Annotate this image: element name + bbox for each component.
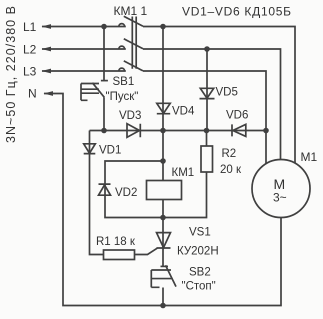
node L1-VD4 [160,24,166,30]
arrow N [44,91,54,96]
contactor KM1.1 fixed contact hump row1 [119,24,125,27]
node VD5-R2-VD6 [204,128,210,134]
svg-text:SB1: SB1 [113,76,135,88]
wire main vertical A bottom [162,288,164,306]
wire L3 left segment [42,70,126,72]
node L1-SB1 [101,24,107,30]
pushbutton SB1 actuator rod [81,89,99,93]
node VD3-VD4 [160,128,166,134]
wire R1 right lead and VS1 gate [135,248,158,254]
pushbutton SB2 actuator rod [151,278,172,280]
svg-text:"Пуск": "Пуск" [106,91,139,103]
diode VD4 [157,103,170,113]
wire L2 left segment [42,48,126,50]
svg-text:VS1: VS1 [189,227,211,239]
thyristor VS1 [157,233,171,248]
wire L1 right segment to motor [143,27,295,164]
pushbutton SB2 actuator [151,270,171,287]
wire L3 right segment [143,71,266,165]
contactor KM1.1 linkage bar [132,17,136,69]
svg-text:L3: L3 [23,65,37,79]
wire main vertical A upper [162,27,164,181]
svg-text:КМ1 1: КМ1 1 [114,4,148,18]
node coil bottom [160,215,166,221]
svg-text:"Стоп": "Стоп" [182,281,216,293]
pushbutton SB1 blade [92,83,104,98]
svg-text:КМ1: КМ1 [172,167,195,179]
svg-text:R1 18 к: R1 18 к [96,236,136,248]
contactor KM1.1 fixed contact hump row2 [119,46,125,49]
diode VD6 [232,124,246,136]
relay coil KM1 [147,181,182,200]
wire N rail to bottom rail to motor bottom [44,94,281,306]
wire L1 left segment [42,26,126,28]
wire VD5 branch [206,49,208,131]
wire SB1 branch upper [103,27,105,81]
wire R2 top lead [206,131,208,147]
diode VD1 [84,144,96,154]
svg-text:L2: L2 [23,43,37,57]
diode VD3 [127,124,140,138]
svg-text:VD3: VD3 [119,110,141,122]
diode VD2 [99,184,111,195]
svg-text:VD1: VD1 [99,145,121,157]
wire L2 right segment to motor [143,49,281,160]
wire VD2 loop [105,161,163,218]
pushbutton SB2 blade [166,265,177,286]
svg-text:SB2: SB2 [189,267,211,279]
node VD6-L3 [263,128,269,134]
wire node row y130 left [90,130,164,132]
svg-text:VD5: VD5 [216,87,238,99]
svg-text:VD1–VD6 КД105Б: VD1–VD6 КД105Б [182,5,291,19]
svg-text:VD6: VD6 [226,110,248,122]
pushbutton SB1 actuator [81,84,99,101]
arrow L1 [42,24,52,29]
svg-text:VD2: VD2 [115,187,137,199]
wire main vertical A lower [162,200,164,267]
svg-text:КУ202Н: КУ202Н [177,246,219,258]
svg-text:3N~50 Гц, 220/380 В: 3N~50 Гц, 220/380 В [4,6,18,143]
node L2-VD5 [204,46,210,52]
svg-text:М1: М1 [301,150,318,164]
pushbutton SB2 top terminal tick [161,265,169,267]
svg-text:L1: L1 [23,20,37,34]
arrow L3 [42,69,52,74]
motor M1 circle [252,160,310,218]
pushbutton SB1 top terminal tick [101,80,108,82]
wire SB1 branch lower [103,97,105,130]
svg-text:3~: 3~ [273,191,287,205]
resistor R2 [201,146,213,172]
wire R2 bottom lead to coil node [163,172,207,218]
diode VD5 [200,88,215,98]
svg-text:N: N [28,87,37,101]
node SB1-VD3-VD1 [101,128,107,134]
node SB2 bottom rail [160,303,166,309]
resistor R1 [104,250,135,260]
contactor KM1.1 blade row3 [124,61,143,71]
contactor KM1.1 fixed contact hump row3 [119,68,125,71]
svg-text:20 к: 20 к [220,164,242,176]
contactor KM1.1 blade row1 [124,16,143,26]
svg-text:VD4: VD4 [172,106,195,118]
contactor KM1.1 blade row2 [124,39,143,49]
wire VD1 branch down to R1 [90,131,104,255]
wire node row y130 right [163,130,266,132]
node coil top [160,158,166,164]
arrow L2 [42,47,52,52]
svg-text:R2: R2 [222,148,237,160]
